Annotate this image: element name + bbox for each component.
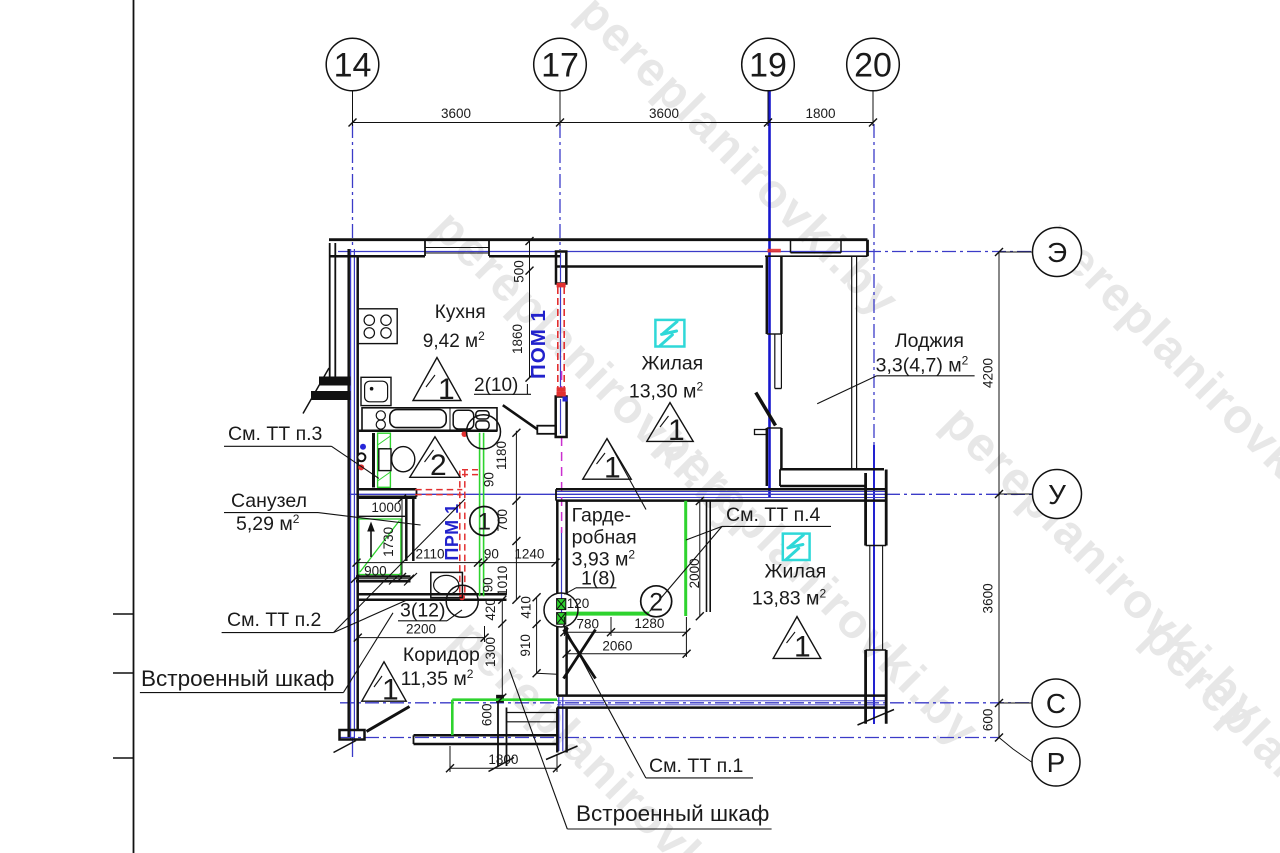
svg-text:600: 600: [981, 709, 996, 732]
red dot riser left wall: [358, 464, 364, 470]
right wall lower part: [864, 473, 867, 546]
svg-text:См. ТТ п.3: См. ТТ п.3: [228, 423, 322, 445]
washer circle: [446, 585, 478, 617]
right wall window: [869, 546, 871, 651]
toilet bowl: [392, 447, 415, 472]
dim 500/1860 line: [529, 241, 531, 378]
niche break slashes: [389, 572, 402, 585]
sink taps: [476, 411, 489, 419]
bath lower vertical wall: [405, 497, 408, 561]
leader Sm TT p1: [646, 777, 753, 779]
red square top: [557, 283, 566, 288]
corridor top wall: [357, 593, 507, 596]
bath left black pier: [372, 433, 375, 488]
bottom-left wall stub: [340, 730, 365, 740]
counter divider: [449, 408, 451, 431]
leader Sm TT p2: [222, 632, 334, 634]
toilet tank: [379, 449, 391, 471]
svg-text:1860: 1860: [510, 324, 525, 354]
dim 420/1300 line: [501, 600, 503, 698]
axis circle S: [1032, 679, 1080, 727]
leader triangle garderob: [608, 440, 647, 510]
dim texts horizontal: [364, 106, 835, 767]
dim 1730 line: [401, 499, 403, 578]
big circle appliance by sink: [467, 415, 501, 449]
U-row wall: [556, 488, 887, 491]
axis circle 19: [742, 38, 795, 91]
watermark pereplanirovki.by: [422, 0, 1280, 853]
svg-text:2060: 2060: [602, 638, 632, 653]
svg-text:420: 420: [483, 598, 498, 621]
lightning Zhilaya bottom: [783, 534, 810, 560]
kitchen window: [425, 247, 489, 249]
svg-text:14: 14: [334, 47, 372, 85]
svg-text:1730: 1730: [381, 527, 396, 557]
svg-text:1: 1: [604, 452, 621, 485]
entry door leaf: [367, 707, 410, 732]
svg-text:Жилая: Жилая: [642, 353, 704, 375]
red dashed top stub to green: [462, 469, 480, 471]
axis circle R: [1032, 738, 1080, 786]
red dot by sink: [462, 431, 468, 437]
svg-text:1(8): 1(8): [581, 568, 616, 590]
svg-text:4200: 4200: [981, 358, 996, 388]
junction black square under green: [497, 695, 504, 702]
triangle living top: [647, 403, 693, 442]
svg-text:780: 780: [577, 616, 600, 631]
leader 3(12): [398, 620, 447, 622]
svg-text:1280: 1280: [634, 616, 664, 631]
loggia door hinge plate: [755, 430, 767, 435]
bottom wall of corridor: [414, 734, 558, 737]
junction circle at door 1(8): [544, 593, 578, 627]
ledge 1: [320, 377, 351, 385]
left wall: [347, 249, 350, 737]
loggia window part: [774, 334, 776, 389]
axis circle E: [1033, 228, 1082, 277]
washbasin: [361, 377, 391, 405]
svg-text:Лоджия: Лоджия: [895, 330, 964, 352]
svg-text:1240: 1240: [514, 547, 544, 562]
loggia left wall upper: [766, 256, 769, 334]
bath mid wall: [358, 488, 417, 491]
svg-text:3600: 3600: [649, 106, 679, 121]
red band on pillar: [557, 392, 566, 397]
red square bottom: [557, 387, 566, 392]
top wall inner edge living: [556, 265, 763, 268]
pillar axis17 top: [556, 252, 566, 284]
black riser ring: [357, 453, 365, 461]
svg-text:1000: 1000: [371, 500, 401, 515]
svg-text:600: 600: [479, 704, 494, 727]
svg-text:3600: 3600: [981, 583, 996, 613]
blue line in pillar: [560, 253, 562, 282]
svg-text:90: 90: [481, 472, 496, 487]
loggia parapet notch: [790, 241, 792, 253]
top wall right cap: [866, 240, 869, 257]
loggia door leaf: [756, 393, 776, 426]
top wall outer edge: [329, 238, 868, 241]
svg-text:1800: 1800: [488, 752, 518, 767]
svg-text:17: 17: [541, 47, 579, 85]
svg-text:1180: 1180: [494, 441, 509, 470]
svg-text:Встроенный шкаф: Встроенный шкаф: [576, 801, 769, 826]
svg-text:Санузел: Санузел: [231, 490, 307, 512]
closet inner lines: [507, 712, 557, 714]
neighbour wall top-left: [329, 243, 331, 377]
triangle wardrobe: [583, 439, 631, 480]
frame tick 3: [113, 757, 134, 759]
svg-text:2200: 2200: [406, 622, 436, 637]
door 2(10) jamb: [537, 426, 556, 434]
svg-text:910: 910: [518, 634, 533, 657]
sheet frame left line: [133, 0, 135, 853]
triangle bath: [410, 437, 460, 478]
svg-text:С: С: [1046, 688, 1066, 719]
svg-text:1: 1: [438, 373, 455, 406]
dim ticks: [349, 119, 1004, 773]
pillar axis17 mid: [556, 397, 567, 438]
svg-text:410: 410: [519, 596, 534, 619]
door 1(8) X mark: [564, 630, 596, 679]
axis U in-wall double: [556, 491, 886, 493]
axis U horizontal: [348, 493, 886, 495]
axis 14 vertical: [352, 124, 354, 248]
axis 19 vertical solid thick: [768, 90, 771, 498]
dim 2000 line: [699, 501, 701, 616]
svg-text:20: 20: [854, 47, 892, 85]
dim 1800 line: [450, 767, 557, 769]
break line bottom-right: [858, 710, 895, 726]
svg-text:1: 1: [668, 414, 685, 447]
dim 2200 line: [358, 637, 485, 639]
svg-text:Жилая: Жилая: [765, 561, 827, 583]
break line segment C: [546, 746, 578, 760]
green closet partition corridor: [452, 698, 557, 701]
corridor right wall segment C: [556, 708, 559, 753]
svg-text:См. ТТ п.2: См. ТТ п.2: [227, 609, 321, 631]
svg-text:90: 90: [484, 547, 499, 562]
dim 900 line: [355, 578, 411, 580]
dim texts rotated: [381, 260, 995, 731]
svg-text:Р: Р: [1047, 747, 1066, 778]
svg-text:Коридор: Коридор: [403, 644, 480, 666]
dim 410/910 line: [536, 597, 538, 673]
corridor right wall segment B: [556, 627, 559, 696]
dim 780/1280 line: [564, 631, 686, 633]
kitchen counter: [362, 408, 497, 431]
svg-text:900: 900: [364, 563, 387, 578]
svg-text:См. ТТ п.1: См. ТТ п.1: [649, 755, 743, 777]
red mark at axis19 top wall: [768, 249, 781, 253]
leader Sm TT p3: [224, 445, 332, 447]
loggia bottom wall: [780, 468, 884, 471]
frame tick 2: [113, 672, 134, 674]
svg-text:1: 1: [794, 631, 811, 664]
shower arrow: [370, 529, 372, 557]
lightning Zhilaya top: [655, 320, 684, 347]
counter appliance: [390, 410, 446, 428]
svg-text:1010: 1010: [495, 566, 510, 596]
svg-text:1300: 1300: [483, 637, 498, 667]
svg-text:2: 2: [649, 589, 663, 617]
axis circle U: [1033, 470, 1082, 519]
red dashed bath wall horizontal: [415, 489, 462, 491]
triangle living bottom: [773, 617, 821, 659]
red dashed bath wall vertical: [459, 471, 461, 597]
loggia left wall lower: [766, 428, 769, 486]
right dim line: [998, 252, 1000, 738]
old partition right of wardrobe: [706, 501, 708, 612]
svg-text:3,3(4,7) м2: 3,3(4,7) м2: [876, 354, 969, 377]
svg-text:ПОМ 1: ПОМ 1: [527, 309, 550, 379]
kitchen/bath divider: [358, 429, 497, 432]
washer square: [431, 572, 463, 597]
svg-text:См. ТТ п.4: См. ТТ п.4: [726, 504, 821, 526]
svg-text:11,35 м2: 11,35 м2: [401, 667, 474, 690]
door 2(10) leaf: [503, 405, 538, 429]
svg-text:13,83 м2: 13,83 м2: [752, 587, 827, 610]
svg-text:2: 2: [430, 449, 447, 482]
axis circle 20: [847, 38, 900, 91]
svg-text:1800: 1800: [805, 106, 835, 121]
axis E horizontal: [338, 251, 867, 253]
svg-text:3(12): 3(12): [400, 600, 446, 622]
svg-text:500: 500: [512, 260, 527, 283]
axis circle 17: [534, 38, 587, 91]
leader Lodzhiya: [877, 375, 975, 377]
ledge 2: [312, 392, 351, 400]
blue square on pillar: [563, 397, 568, 402]
break line below closet: [489, 758, 515, 772]
green hatched vent shaft: [378, 433, 391, 487]
top wall inner edge kitchen: [329, 255, 425, 258]
dim 2060 line: [567, 653, 687, 655]
svg-text:2110: 2110: [415, 547, 444, 562]
svg-text:2000: 2000: [687, 558, 702, 588]
red dashed POM1 wall: [557, 287, 559, 388]
niche bottom wall: [356, 575, 411, 578]
green bath right partition: [479, 433, 481, 597]
svg-text:1: 1: [382, 674, 399, 707]
leader Sm TT p4: [722, 525, 831, 527]
svg-text:5,29 м2: 5,29 м2: [236, 512, 300, 535]
S-row wall: [557, 694, 887, 697]
svg-text:120: 120: [567, 596, 590, 611]
wall below closet: [497, 696, 499, 767]
break line bottom-left: [334, 741, 357, 753]
sink bowl: [453, 410, 474, 429]
green shower tray: [359, 519, 401, 575]
door 1000 lines: [358, 497, 417, 499]
green junction block lower: [557, 613, 566, 625]
green wardrobe bottom partition: [566, 612, 649, 616]
svg-text:Кухня: Кухня: [435, 302, 486, 323]
blue riser dot: [360, 444, 366, 450]
dim 2110/90/1240 line: [356, 562, 556, 564]
green junction block upper: [557, 599, 566, 610]
break line top-left: [303, 368, 329, 414]
magenta screen line: [561, 371, 563, 533]
axis circle 14: [326, 38, 379, 91]
leader 1(8): [576, 587, 616, 589]
svg-text:13,30 м2: 13,30 м2: [629, 380, 704, 403]
svg-text:У: У: [1048, 479, 1066, 510]
corridor right wall segment A: [556, 501, 559, 594]
axis 20 vertical: [873, 124, 875, 445]
counter burners: [376, 411, 385, 420]
axis 17 vertical: [559, 124, 561, 250]
svg-text:2(10): 2(10): [474, 375, 518, 396]
frame tick 1: [113, 613, 134, 615]
svg-text:робная: робная: [572, 527, 637, 549]
green wardrobe right partition: [684, 501, 687, 616]
leader 2(10): [474, 393, 531, 395]
axis R horizontal: [340, 737, 999, 739]
svg-text:3600: 3600: [441, 106, 471, 121]
svg-text:Гарде-: Гарде-: [572, 505, 631, 527]
loggia right glazing: [851, 257, 853, 470]
leader Sanuzel: [224, 512, 318, 514]
leader Vstroennyi shkaf bottom: [567, 828, 771, 830]
stove: [358, 309, 397, 344]
red dot end of dashed: [459, 594, 465, 600]
circled number 1: [470, 507, 499, 536]
svg-text:19: 19: [749, 47, 787, 85]
dim 1180/700/1010 line: [515, 431, 517, 600]
triangle corridor: [362, 662, 406, 701]
svg-text:Э: Э: [1047, 237, 1067, 268]
svg-text:9,42 м2: 9,42 м2: [423, 329, 485, 352]
svg-text:1: 1: [478, 509, 491, 536]
top wall inner edge loggia: [765, 255, 868, 257]
axis S horizontal: [340, 702, 1031, 704]
svg-text:90: 90: [481, 577, 496, 592]
triangle kitchen: [413, 358, 461, 401]
top dim line: [353, 122, 874, 124]
leader Vstroennyi shkaf left: [140, 692, 344, 694]
circled number 2: [641, 586, 672, 617]
svg-text:Встроенный шкаф: Встроенный шкаф: [141, 666, 334, 691]
